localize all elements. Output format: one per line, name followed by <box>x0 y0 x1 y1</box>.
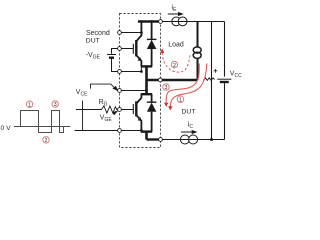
terminal node emitter aux <box>118 129 122 133</box>
battery -VGE short plate <box>109 57 114 59</box>
feed wire upper cell to midpoint <box>145 66 148 80</box>
diode D1 body <box>147 40 157 49</box>
gate pulse waveform axis <box>14 126 70 128</box>
svg-text:1: 1 <box>28 102 31 108</box>
lower cell collector join bar <box>141 93 152 95</box>
current probe iC <box>180 135 189 144</box>
top rail thick segment <box>138 20 161 23</box>
capacitor C1 branch <box>211 22 213 140</box>
terminal node top rail <box>159 20 163 24</box>
svg-text:RG: RG <box>99 99 108 108</box>
diode D2 body <box>147 103 157 112</box>
terminal node lower gate <box>118 108 122 112</box>
diode D1 anode lead <box>151 49 153 66</box>
transistor Q2 (DUT IGBT) collector lead <box>136 94 141 103</box>
bottom rail thick segment <box>147 138 161 140</box>
svg-text:VCC: VCC <box>230 70 242 79</box>
iC arrow <box>181 131 193 133</box>
VCE probe wire to collector node <box>91 84 117 90</box>
transistor Q2 gate bar <box>132 104 134 114</box>
midpoint wire <box>147 79 198 82</box>
svg-text:VCE: VCE <box>76 89 88 98</box>
transistor Q1 body bar <box>135 40 137 56</box>
waveform marker 2 <box>43 137 49 143</box>
capacitor C1 hatched plate <box>203 78 214 81</box>
red arrowhead loop 2 <box>160 48 164 53</box>
red current path 3 <box>166 64 199 104</box>
junction dot collector aux upper <box>140 31 143 34</box>
collector aux wire lower <box>120 90 147 92</box>
upper cell emitter join bar <box>141 65 152 67</box>
diode D2 cathode bar <box>147 101 157 103</box>
svg-text:0 V: 0 V <box>1 125 12 132</box>
red freewheel loop 2 dashed arc <box>162 53 190 73</box>
junction dot Q1 emitter aux <box>140 70 143 73</box>
svg-text:-VGE: -VGE <box>86 52 101 61</box>
feed wire midpoint to lower cell <box>145 80 148 94</box>
VGE measure arrow <box>112 110 119 115</box>
emitter aux wire <box>75 130 142 132</box>
battery VCC long plate <box>217 78 231 80</box>
svg-text:2: 2 <box>173 63 176 69</box>
svg-text:3: 3 <box>165 85 168 91</box>
terminal node upper collector aux <box>118 31 122 35</box>
resistor RG lead and zigzag <box>76 106 120 113</box>
transistor Q2 gate lead <box>120 109 134 111</box>
waveform marker 3 <box>52 101 58 107</box>
feed wire lower cell to bottom rail <box>145 132 148 140</box>
transistor Q1 gate lead <box>120 48 134 50</box>
terminal node bottom rail <box>159 138 163 142</box>
iE arrow <box>168 13 180 15</box>
circuit marker 3 <box>163 84 169 90</box>
transistor Q2 body bar <box>135 101 137 116</box>
svg-text:iC: iC <box>188 121 194 130</box>
top rail wire <box>161 21 225 23</box>
svg-text:2: 2 <box>45 138 48 144</box>
red arrowhead path 3 <box>164 103 168 107</box>
svg-text:Second: Second <box>86 30 110 37</box>
battery VCC branch upper <box>224 22 226 77</box>
terminal node midpoint <box>158 78 162 82</box>
red arrowhead path 1 <box>168 106 172 110</box>
diode D1 cathode lead <box>151 20 153 39</box>
circuit marker 2 <box>171 61 177 67</box>
VCE probe vertical bus <box>82 101 84 131</box>
transistor Q1 gate bar <box>132 44 134 54</box>
terminal node upper gate <box>118 47 122 51</box>
junction dot bottom cap branch <box>210 138 213 141</box>
lower cell emitter join bar <box>141 130 152 132</box>
-VGE battery wire from gate node <box>112 49 120 54</box>
-VGE battery wire to emitter <box>112 58 142 71</box>
svg-text:DUT: DUT <box>86 38 100 45</box>
junction dot collector aux lower <box>145 89 148 92</box>
inductor Load coil <box>193 47 201 53</box>
terminal node lower collector aux <box>118 89 122 93</box>
svg-text:Load: Load <box>168 41 184 48</box>
gate pulse waveform <box>14 111 69 133</box>
battery VCC short plate <box>220 81 229 83</box>
svg-text:1: 1 <box>179 97 182 103</box>
junction dot emitter aux <box>140 129 143 132</box>
svg-text:iE: iE <box>172 4 178 13</box>
transistor Q2 emitter lead with arrow <box>136 115 141 131</box>
transistor Q1 emitter lead with arrow <box>136 55 141 66</box>
load branch wire <box>197 22 199 48</box>
red current path 1 <box>170 64 207 107</box>
terminal node upper emitter aux <box>118 70 122 74</box>
battery VCC branch lower <box>224 83 226 139</box>
current probe iE <box>172 17 181 26</box>
svg-text:VGE: VGE <box>100 115 113 124</box>
circuit marker 1 <box>177 96 183 102</box>
emitter stub Q1 <box>140 66 142 71</box>
diode D2 cathode lead <box>151 94 153 102</box>
diode D2 anode lead <box>151 112 153 132</box>
battery -VGE long plate <box>107 54 116 56</box>
waveform marker 1 <box>26 101 32 107</box>
transistor Q1 (Second DUT IGBT) collector lead <box>136 20 141 41</box>
bottom rail wire <box>161 139 225 141</box>
svg-text:3: 3 <box>54 102 57 108</box>
diode D1 cathode bar <box>147 38 157 40</box>
collector aux wire upper <box>120 32 142 34</box>
svg-text:DUT: DUT <box>182 108 196 115</box>
capacitor C1 plus sign <box>214 69 218 73</box>
module outline dashed box <box>120 14 161 148</box>
